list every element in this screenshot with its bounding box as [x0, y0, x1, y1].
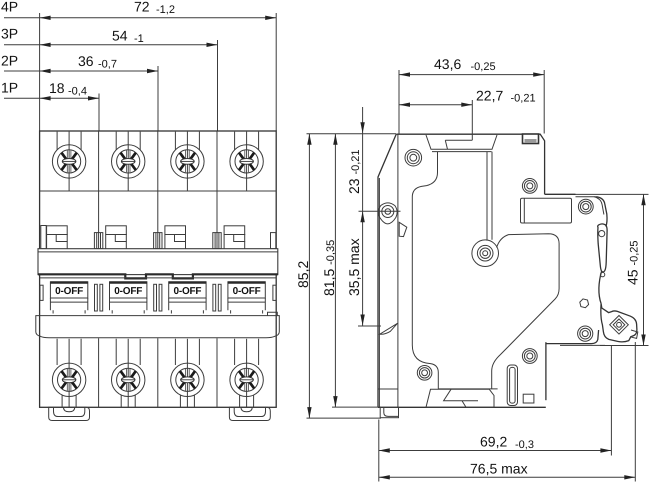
svg-text:-0,3: -0,3: [515, 439, 534, 451]
svg-text:-0,4: -0,4: [68, 86, 87, 98]
svg-text:4P: 4P: [1, 0, 18, 15]
svg-text:3P: 3P: [1, 26, 18, 42]
svg-text:72: 72: [134, 0, 150, 15]
svg-text:0-OFF: 0-OFF: [114, 286, 142, 297]
svg-text:22,7: 22,7: [476, 88, 503, 104]
svg-text:-0,7: -0,7: [98, 59, 117, 71]
svg-text:-1,2: -1,2: [156, 4, 175, 16]
svg-text:35,5 max: 35,5 max: [346, 238, 362, 296]
svg-text:85,2: 85,2: [295, 261, 311, 288]
svg-text:2P: 2P: [1, 53, 18, 69]
svg-text:76,5 max: 76,5 max: [470, 460, 528, 476]
svg-text:0-OFF: 0-OFF: [173, 286, 201, 297]
svg-text:43,6: 43,6: [434, 56, 461, 72]
svg-text:0-OFF: 0-OFF: [55, 286, 83, 297]
svg-text:-0,21: -0,21: [511, 93, 536, 105]
svg-text:0-OFF: 0-OFF: [233, 286, 261, 297]
svg-text:69,2: 69,2: [480, 434, 507, 450]
svg-text:1P: 1P: [1, 80, 18, 96]
svg-text:-0,25: -0,25: [471, 61, 496, 73]
svg-text:18: 18: [49, 80, 65, 96]
svg-text:36: 36: [78, 53, 94, 69]
svg-text:-1: -1: [134, 33, 144, 45]
svg-text:54: 54: [112, 28, 128, 44]
